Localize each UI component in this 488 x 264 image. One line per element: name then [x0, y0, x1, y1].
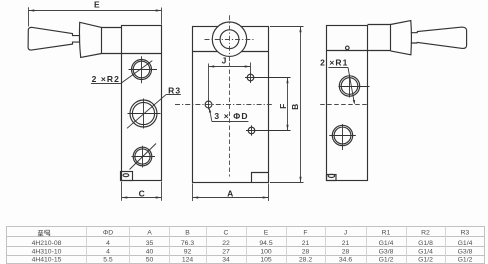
horizontal centerline y=104.5 (middle view): [175, 104, 273, 106]
svg-text:G1/8: G1/8: [418, 240, 433, 247]
svg-text:4H410-15: 4H410-15: [32, 257, 62, 264]
arrow J right: [245, 65, 251, 67]
svg-text:B: B: [185, 229, 190, 236]
svg-text:E: E: [264, 229, 269, 236]
lever fan arm (left view): [79, 22, 101, 57]
leader 2xR2 through circle: [121, 61, 153, 84]
crosshair top port right view: [339, 75, 370, 98]
arrow E right: [156, 9, 162, 11]
header 型号 glyphs drawn: [38, 230, 50, 236]
dim C extension lines: [122, 182, 162, 201]
arrow J left: [209, 65, 215, 67]
arrow F bottom: [286, 125, 288, 131]
arrow A right: [263, 196, 269, 198]
dashed centerline (right view): [320, 104, 369, 106]
svg-text:4H210-08: 4H210-08: [32, 240, 62, 247]
port circle middle R3 (left view): [130, 100, 157, 127]
arrow B top: [299, 27, 301, 33]
lever grip (left view): [28, 27, 79, 50]
svg-text:35: 35: [146, 240, 154, 247]
svg-text:G1/4: G1/4: [418, 248, 433, 255]
port circle bottom (left view): [133, 147, 152, 166]
svg-text:A: A: [227, 188, 234, 198]
svg-text:28.2: 28.2: [299, 257, 312, 264]
table row lines: [7, 237, 485, 256]
notch bottom-right (middle view): [252, 173, 269, 183]
lever collar (right view): [368, 25, 391, 51]
svg-text:ΦD: ΦD: [103, 229, 113, 236]
svg-text:40: 40: [146, 248, 154, 255]
crosshair bottom port right view: [329, 124, 356, 150]
svg-text:4: 4: [106, 240, 110, 247]
svg-text:21: 21: [342, 240, 350, 247]
arrow B bottom: [299, 177, 301, 183]
top boss outer circle (middle view): [212, 22, 246, 56]
diagonal bottom port: [130, 144, 157, 170]
body vertical centerline (middle view): [229, 63, 231, 177]
lever collar (left view): [102, 28, 122, 54]
label underlines: [91, 68, 348, 122]
dim E line: [29, 10, 162, 12]
svg-text:105: 105: [260, 257, 272, 264]
dim E extension lines: [29, 7, 162, 26]
arrow A left: [193, 196, 199, 198]
svg-text:76.3: 76.3: [181, 240, 194, 247]
dim F line: [287, 78, 289, 131]
boss crosshair dash-dot: [205, 15, 254, 62]
svg-text:A: A: [147, 229, 152, 236]
svg-text:34: 34: [222, 257, 230, 264]
crosshair bottom port: [132, 146, 156, 168]
svg-text:5.5: 5.5: [103, 257, 113, 264]
arrow E left: [29, 9, 35, 11]
svg-text:4: 4: [106, 248, 110, 255]
svg-text:R2: R2: [421, 229, 430, 236]
lever fan arm (right view): [391, 21, 412, 55]
svg-text:G1/2: G1/2: [458, 257, 473, 264]
lever neck (right view): [411, 33, 418, 43]
char 型: [38, 230, 45, 236]
svg-text:C: C: [139, 188, 146, 198]
svg-text:J: J: [344, 229, 347, 236]
leader R3 through circle: [127, 95, 166, 129]
svg-text:R3: R3: [461, 229, 470, 236]
port circle top 2xR2 (left view): [132, 60, 152, 80]
crosshair top port: [129, 56, 158, 83]
svg-text:4H310-10: 4H310-10: [32, 248, 62, 255]
svg-text:J: J: [222, 56, 228, 66]
table column lines: [87, 227, 446, 264]
char 号: [45, 230, 50, 236]
svg-text:2 ×R2: 2 ×R2: [92, 74, 120, 84]
body (left view): [122, 26, 162, 181]
arrow C right: [156, 196, 162, 198]
svg-text:B: B: [290, 103, 300, 110]
svg-text:C: C: [224, 229, 229, 236]
hole mid-right (middle view): [248, 127, 255, 134]
svg-text:G1/4: G1/4: [379, 240, 394, 247]
svg-text:124: 124: [182, 257, 194, 264]
svg-text:R1: R1: [382, 229, 391, 236]
arrow PhiD leader: [209, 108, 211, 112]
svg-text:F: F: [303, 229, 307, 236]
svg-text:E: E: [94, 0, 101, 9]
body (middle view): [193, 27, 269, 183]
hole 3xPhiD (middle view): [205, 101, 212, 108]
lever grip (right view): [417, 27, 466, 48]
port circle bottom (right view): [332, 125, 352, 145]
crosshair middle port: [128, 99, 161, 129]
svg-text:27: 27: [222, 248, 230, 255]
arrow F top: [286, 78, 288, 84]
svg-text:94.5: 94.5: [259, 240, 272, 247]
svg-text:G1/2: G1/2: [379, 257, 394, 264]
svg-text:92: 92: [184, 248, 192, 255]
svg-text:21: 21: [302, 240, 310, 247]
svg-text:G1/2: G1/2: [418, 257, 433, 264]
svg-text:G3/8: G3/8: [379, 248, 394, 255]
muffler box (left view): [121, 172, 133, 181]
svg-text:R3: R3: [168, 86, 181, 96]
arrow R1 leader: [353, 100, 355, 104]
svg-text:34.6: 34.6: [339, 257, 352, 264]
arrowheads: [29, 9, 356, 198]
leader 2xR1 through circle: [348, 67, 354, 103]
dim J line + extensions: [209, 63, 251, 101]
svg-text:F: F: [278, 103, 288, 109]
arrow C left: [122, 196, 128, 198]
dim A extension lines: [193, 184, 269, 202]
top boss inner circle: [220, 30, 239, 49]
dim C line: [122, 197, 162, 199]
svg-text:28: 28: [342, 248, 350, 255]
small pin circle (right view): [346, 46, 350, 50]
port circle top 2xR1 (right view): [339, 76, 359, 96]
svg-text:2 ×R1: 2 ×R1: [320, 58, 348, 68]
leader 3xPhiD: [209, 109, 212, 122]
svg-text:100: 100: [260, 248, 272, 255]
svg-text:50: 50: [146, 257, 154, 264]
head bottom line (left view): [102, 53, 162, 55]
svg-text:28: 28: [302, 248, 310, 255]
dim A line: [193, 197, 269, 199]
svg-text:G1/4: G1/4: [458, 240, 473, 247]
head band line (middle view): [193, 51, 269, 53]
head band line (right view): [327, 50, 368, 52]
muffler box (right view): [327, 175, 337, 181]
svg-text:22: 22: [222, 240, 230, 247]
svg-text:G3/8: G3/8: [458, 248, 473, 255]
hole top-right (middle view): [247, 74, 254, 81]
table outer border: [7, 227, 485, 264]
dim B line + extensions: [270, 27, 304, 183]
svg-text:3 × ΦD: 3 × ΦD: [214, 111, 248, 121]
body (right view): [327, 26, 368, 181]
